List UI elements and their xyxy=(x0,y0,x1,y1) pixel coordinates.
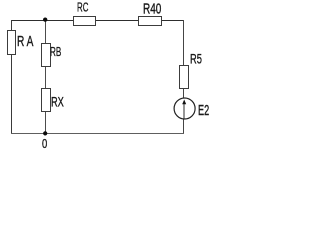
resistor R5 body xyxy=(180,66,189,89)
source E2 arrowhead xyxy=(182,100,186,105)
resistor RX body xyxy=(42,89,51,112)
label E2 xyxy=(198,103,209,118)
resistor RC body xyxy=(74,17,96,26)
junction node 0 dot xyxy=(43,131,47,135)
label RA xyxy=(17,34,33,48)
label RC xyxy=(77,1,88,13)
label RX xyxy=(51,95,64,109)
wire right branch upper xyxy=(183,20,185,66)
source E2 arrow shaft xyxy=(183,101,185,119)
wire right branch middle xyxy=(183,88,185,99)
resistor RA body xyxy=(8,31,16,55)
wire left branch xyxy=(11,20,13,134)
label RB xyxy=(50,45,61,58)
wire middle branch xyxy=(45,20,47,134)
label R5 xyxy=(190,52,202,66)
wire bottom rail node 0 xyxy=(11,133,184,135)
wire top rail xyxy=(11,20,184,22)
junction node A dot xyxy=(43,17,47,21)
wire right branch lower xyxy=(183,118,185,134)
label node 0 xyxy=(42,137,47,150)
label R40 xyxy=(143,1,161,16)
resistor RB body xyxy=(42,44,51,67)
resistor R40 body xyxy=(139,17,162,26)
source E2 circle xyxy=(174,98,195,119)
